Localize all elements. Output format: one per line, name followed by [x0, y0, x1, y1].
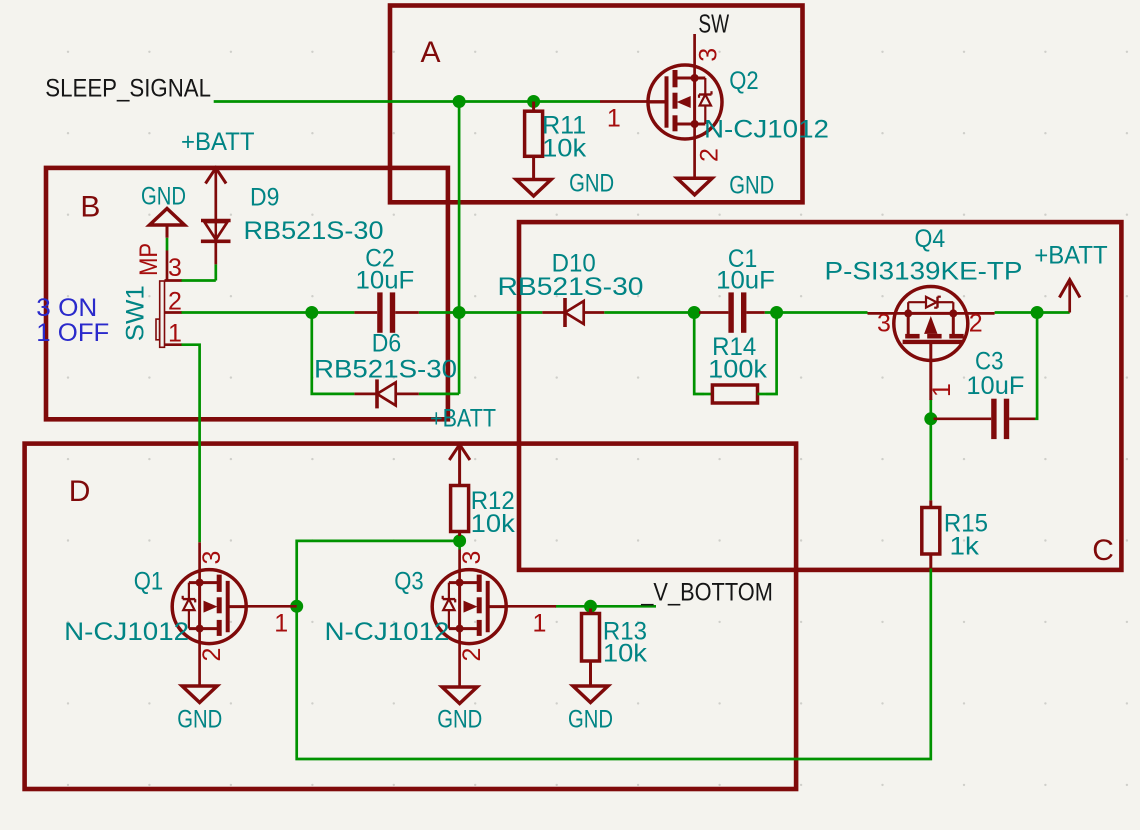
svg-text:3: 3	[198, 551, 226, 565]
wire SW1 pin2 row to C2	[181, 311, 354, 314]
svg-text:GND: GND	[141, 183, 186, 211]
svg-text:D9: D9	[250, 184, 279, 212]
sheet box B	[46, 168, 448, 419]
svg-text:SLEEP_SIGNAL: SLEEP_SIGNAL	[45, 74, 211, 102]
capacitor C1	[699, 292, 765, 332]
svg-text:P-SI3139KE-TP: P-SI3139KE-TP	[825, 257, 1023, 285]
svg-text:A: A	[421, 36, 441, 69]
sheet box A	[390, 6, 803, 203]
transistor Q2	[600, 34, 722, 178]
svg-text:2: 2	[696, 148, 724, 162]
svg-text:3: 3	[458, 551, 486, 565]
svg-text:10uF: 10uF	[966, 372, 1024, 400]
wire junction to R15 top	[929, 419, 932, 501]
resistor R14 (horizontal)	[704, 385, 766, 403]
svg-text:GND: GND	[729, 172, 774, 200]
ground under Q3	[442, 687, 477, 704]
svg-text:10uF: 10uF	[716, 267, 775, 295]
svg-text:10k: 10k	[542, 135, 587, 163]
svg-text:3: 3	[877, 310, 891, 338]
resistor R11	[525, 102, 543, 180]
svg-text:RB521S-30: RB521S-30	[314, 356, 457, 384]
svg-text:RB521S-30: RB521S-30	[498, 273, 644, 301]
svg-text:B: B	[80, 191, 100, 224]
ground under Q2	[677, 178, 712, 195]
svg-text:N-CJ1012: N-CJ1012	[704, 116, 829, 144]
transistor Q1 (mirrored)	[172, 542, 297, 686]
svg-text:GND: GND	[568, 705, 613, 733]
svg-text:N-CJ1012: N-CJ1012	[64, 618, 189, 646]
svg-text:GND: GND	[569, 170, 614, 198]
wire Q4 gate to junction	[929, 399, 932, 419]
wire D6 right to vertical	[419, 393, 459, 396]
sheet box D	[25, 444, 797, 789]
svg-text:RB521S-30: RB521S-30	[244, 217, 384, 245]
svg-text:+BATT: +BATT	[181, 128, 255, 156]
diode D6 (horizontal, cathode left)	[354, 379, 418, 408]
diode D9 (vertical, cathode down)	[201, 221, 231, 265]
svg-text:3 ON: 3 ON	[36, 294, 97, 322]
svg-text:Q3: Q3	[394, 568, 423, 596]
svg-text:3: 3	[695, 48, 723, 62]
svg-text:10k: 10k	[471, 510, 516, 538]
svg-text:Q4: Q4	[915, 225, 946, 253]
wire R13 stub	[589, 606, 592, 609]
wire Q3 gate to V_BOTTOM	[555, 605, 656, 608]
wire C2 to D10	[419, 311, 543, 314]
svg-text:D6: D6	[372, 330, 401, 358]
wire C2 bypass left down to D6	[312, 313, 355, 394]
wire C1 to Q4	[765, 311, 868, 314]
diode D10 (horizontal, cathode left)	[542, 298, 604, 327]
svg-text:C: C	[1092, 534, 1114, 567]
transistor Q3 (mirrored)	[432, 550, 556, 687]
wire GND flip stub	[166, 238, 169, 251]
wire R14 right leg	[766, 313, 777, 395]
wire Q4 to +BATT corner	[995, 311, 1070, 314]
svg-text:2: 2	[458, 648, 486, 662]
svg-text:2: 2	[969, 310, 983, 338]
ground flipped near SW1	[150, 209, 185, 238]
ground under Q1	[182, 686, 217, 703]
wire D10 to C1	[604, 311, 700, 314]
svg-text:1: 1	[607, 105, 621, 133]
svg-text:N-CJ1012: N-CJ1012	[325, 618, 450, 646]
svg-text:+BATT: +BATT	[1034, 242, 1108, 270]
transistor Q4 (P-MOS, gate down)	[868, 287, 995, 401]
svg-text:1: 1	[168, 320, 182, 348]
svg-text:100k: 100k	[708, 356, 767, 384]
svg-text:2: 2	[168, 288, 182, 316]
svg-text:1: 1	[533, 610, 547, 638]
svg-text:1k: 1k	[950, 533, 980, 561]
svg-text:1: 1	[928, 383, 956, 397]
svg-text:2: 2	[198, 648, 226, 662]
svg-text:Q1: Q1	[134, 568, 163, 596]
sheet box C	[519, 222, 1121, 570]
svg-text:Q2: Q2	[729, 67, 758, 95]
svg-text:D: D	[69, 475, 91, 508]
svg-text:1: 1	[274, 610, 288, 638]
resistor R15	[922, 500, 940, 568]
ground under R11	[516, 180, 551, 197]
+BATT right of Q4	[1059, 280, 1080, 298]
ground under R13	[573, 686, 608, 703]
wire R14 left leg	[694, 313, 704, 395]
diode D9 lower lead red	[590, 605, 592, 607]
svg-text:GND: GND	[437, 705, 482, 733]
svg-text:GND: GND	[177, 705, 222, 733]
wire SW1 pin3 to D9	[181, 264, 216, 280]
svg-text:10k: 10k	[603, 640, 648, 668]
svg-text:SW: SW	[698, 9, 729, 39]
wire vertical junction to C3 right	[1035, 313, 1037, 419]
switch SW1	[156, 251, 182, 348]
svg-text:MP: MP	[135, 243, 163, 276]
resistor R12	[451, 486, 469, 541]
wire vertical from SLEEP junction down to D6 row	[458, 102, 461, 394]
svg-text:3: 3	[168, 254, 182, 282]
+BATT above R12	[449, 445, 470, 461]
svg-text:10uF: 10uF	[356, 267, 415, 295]
wire R15 bottom around to R12 junction	[297, 541, 931, 759]
capacitor C2	[354, 292, 418, 332]
wire R12 junction to Q3 pin3	[458, 541, 461, 550]
+BATT above D9	[206, 168, 227, 184]
capacitor C3	[934, 399, 1036, 439]
wire SLEEP_SIGNAL horizontal	[214, 100, 600, 103]
wire SW1 pin1 down to Q1 pin3	[181, 345, 200, 543]
svg-text:_V_BOTTOM: _V_BOTTOM	[640, 579, 772, 607]
resistor R13	[582, 609, 600, 688]
svg-text:1 OFF: 1 OFF	[36, 319, 109, 347]
svg-text:+BATT: +BATT	[430, 405, 496, 433]
svg-text:SW1: SW1	[122, 285, 150, 341]
